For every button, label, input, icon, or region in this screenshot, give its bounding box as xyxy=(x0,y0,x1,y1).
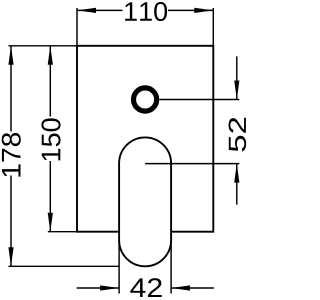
dimension 42 arrow right xyxy=(171,285,190,290)
dimension 150 label xyxy=(41,118,60,160)
dimension 42 left extension line xyxy=(118,240,120,293)
control circle xyxy=(134,88,157,111)
dimension 52 bottom extension line from stadium xyxy=(145,163,239,165)
dimension 52 label xyxy=(229,118,247,152)
dimension 110 extension line right xyxy=(212,8,214,46)
dimension 110 arrow left xyxy=(77,8,96,13)
dimension 52 top extension line from circle xyxy=(160,99,240,101)
dimension 178 bottom extension line xyxy=(9,265,120,267)
dimension 178 arrow bottom xyxy=(8,247,13,266)
dimension 52 arrow bottom xyxy=(234,164,239,183)
dimension 150 bottom extension line xyxy=(48,231,77,233)
dimension 42 right extension line xyxy=(170,240,172,293)
dimension 178/150 top extension line xyxy=(9,45,78,47)
dimension 42 line right tail xyxy=(171,287,214,289)
dimension 178 arrow top xyxy=(8,46,13,65)
dimension 110 line xyxy=(77,9,213,11)
dimension 52 line top tail xyxy=(236,56,238,99)
dimension 52 arrow top xyxy=(234,81,239,100)
dimension 178 label xyxy=(2,133,21,177)
dimension 42 arrow left xyxy=(100,285,119,290)
dimension 42 line left tail xyxy=(77,287,120,289)
dimension 110 extension line left xyxy=(76,8,78,46)
handle stadium xyxy=(119,137,171,266)
dimension 42 label xyxy=(130,278,161,297)
plate outline xyxy=(77,46,213,232)
dimension 150 line xyxy=(49,46,51,232)
dimension 52 line bottom tail xyxy=(236,164,238,205)
dimension 110 arrow right xyxy=(194,8,213,13)
dimension 110 label xyxy=(125,2,167,21)
dimension 150 arrow top xyxy=(48,46,53,65)
dimension 150 arrow bottom xyxy=(48,213,53,232)
dimension 178 line xyxy=(10,46,12,266)
